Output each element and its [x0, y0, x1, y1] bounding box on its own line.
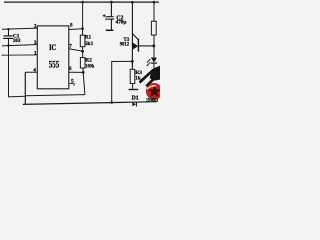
svg-text:1N4001: 1N4001	[146, 98, 159, 103]
wire: ground bottom rail	[23, 102, 157, 105]
wire: pin4 wire	[25, 71, 37, 73]
wire: pin4 vertical to ground rail	[24, 72, 26, 104]
node dot pin7 junction	[81, 50, 84, 53]
wire: pin8 to R1 column	[69, 28, 83, 31]
polarity + sign	[103, 14, 106, 17]
node dot +V/R1	[81, 1, 84, 4]
wire: pin6 wire	[69, 71, 83, 73]
LED D2	[146, 58, 157, 72]
wire: pin7 to R1/R2 junction	[69, 49, 83, 51]
wire: R3 bottom stub	[132, 84, 134, 90]
node dot C1 bottom	[7, 44, 9, 46]
svg-text:D1: D1	[132, 96, 139, 102]
wire: C1 column down to bottom	[8, 46, 10, 97]
node dot C1 top	[7, 28, 9, 30]
node dot +V/T3	[131, 1, 134, 4]
node dot R3 top junction	[131, 60, 134, 63]
wire: C1 top stub	[8, 29, 10, 35]
node dot +V/R4	[153, 1, 156, 4]
svg-text:103: 103	[13, 38, 21, 44]
transistor Q1: T3 9012	[132, 2, 153, 67]
collector column from +V	[131, 2, 133, 67]
collector diagonal	[132, 34, 138, 40]
op-amp U1: 555 timer IC box	[37, 26, 69, 89]
resistor R4 (right column)	[151, 2, 156, 57]
wire: R2 column down	[83, 72, 85, 94]
base wire to right column	[138, 45, 153, 47]
wire: R2 bottom stub	[82, 68, 84, 72]
wire: pin3 line to C1 bottom	[2, 45, 37, 46]
node dot base/right column	[152, 44, 155, 47]
node dot output/bottom rail	[110, 101, 113, 104]
wire: pin1 ground line	[2, 54, 37, 56]
wire: pin2 line to C1 top	[2, 28, 37, 29]
resistor R2	[80, 58, 85, 68]
node dot pin8/R1 top	[81, 27, 84, 30]
watermark black wedge	[139, 66, 160, 87]
wire: R1 column from +V	[82, 2, 84, 35]
resistor R1	[80, 35, 85, 47]
emitter arrow of T3	[132, 42, 138, 49]
svg-text:9012: 9012	[120, 42, 130, 48]
wire: R3 top stub	[131, 61, 133, 69]
capacitor C1	[3, 36, 13, 39]
wire: R1-R2 link	[82, 47, 84, 58]
svg-text:5k1: 5k1	[85, 41, 94, 47]
svg-text:555: 555	[49, 60, 60, 71]
node dot +V/C2	[110, 1, 113, 4]
terminal bar under R3	[129, 89, 139, 91]
diode D1 below rail	[132, 102, 136, 107]
wire: pin5 stub	[69, 84, 74, 86]
watermark red seal ball	[146, 83, 163, 100]
resistor R3	[130, 69, 135, 83]
svg-text:R1: R1	[85, 35, 92, 41]
capacitor C2	[105, 2, 114, 30]
svg-text:470µ: 470µ	[116, 20, 127, 26]
wire: C1 bottom stub	[8, 38, 10, 45]
svg-text:IC: IC	[49, 42, 56, 52]
node dot pin6/R2 bottom	[82, 71, 85, 74]
LED arrows	[147, 59, 150, 62]
wire: output net from bottom rail up and right to T3 collector	[112, 61, 133, 102]
svg-text:100k: 100k	[85, 63, 94, 69]
paper background	[0, 0, 160, 110]
wire: long bottom link under IC	[25, 95, 85, 96]
wire: bottom-left jog	[8, 95, 25, 98]
wire: +V top rail	[4, 1, 159, 3]
base bar	[137, 39, 139, 52]
